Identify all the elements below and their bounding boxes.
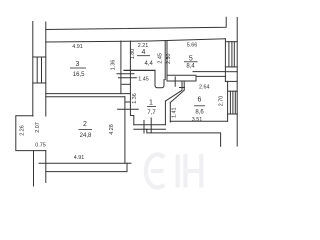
wire: left inner wall lower	[45, 151, 47, 183]
svg-text:4: 4	[142, 49, 146, 56]
svg-text:2.50: 2.50	[166, 53, 172, 64]
wire: rooms top wall	[46, 39, 226, 42]
room 2 bottom wall upper	[39, 162, 131, 164]
niche cap	[125, 101, 130, 103]
room 5 bottom wall lower line	[167, 80, 196, 82]
room 2 right wall	[124, 97, 126, 163]
svg-text:6: 6	[198, 97, 202, 104]
room 5 underline	[184, 61, 198, 63]
door tick a	[117, 73, 134, 75]
svg-text:2.45: 2.45	[157, 53, 163, 64]
window W2 caps	[225, 66, 237, 68]
corridor bottom line	[147, 129, 221, 146]
room 3 bottom wall lower line	[46, 96, 125, 98]
svg-text:2: 2	[83, 121, 87, 128]
svg-text:2.07: 2.07	[35, 122, 41, 133]
wire: left outer wall upper	[32, 22, 34, 117]
diagonal wall a	[165, 90, 182, 101]
rung y81.4	[225, 80, 237, 82]
jamb e1	[143, 121, 145, 134]
room 3 right wall	[120, 41, 122, 94]
right outer wall	[236, 18, 238, 147]
svg-text:7,7: 7,7	[147, 110, 156, 116]
svg-text:4,4: 4,4	[145, 61, 154, 67]
room 2 bottom wall lower	[46, 163, 127, 171]
window W1 left	[33, 56, 46, 58]
room 1 right wall b	[169, 103, 171, 123]
svg-text:8,4: 8,4	[186, 64, 195, 70]
wall room4/5 line1	[164, 41, 166, 80]
svg-text:16,5: 16,5	[73, 72, 85, 78]
room 3 underline	[70, 67, 86, 69]
svg-text:1.45: 1.45	[138, 77, 149, 83]
svg-text:0.75: 0.75	[35, 143, 46, 149]
room 4 underline	[137, 55, 150, 57]
svg-text:1.80: 1.80	[130, 49, 136, 60]
rung y71.7	[225, 71, 237, 73]
svg-text:4.91: 4.91	[72, 44, 83, 50]
svg-text:1: 1	[149, 100, 153, 107]
door jamb	[174, 77, 176, 86]
svg-text:3.51: 3.51	[192, 117, 203, 123]
wall room4/5 line2	[166, 41, 168, 81]
bay outline	[16, 116, 46, 151]
room 6 underline	[194, 105, 205, 107]
svg-text:3: 3	[76, 61, 80, 68]
svg-text:2.70: 2.70	[218, 96, 224, 107]
room 6 bottom wall	[170, 120, 227, 122]
diagonal wall b	[170, 90, 184, 102]
door tick room2	[118, 108, 139, 110]
room 1 underline	[147, 105, 156, 107]
wire: left inner wall upper	[45, 22, 47, 116]
room 5 right wall	[224, 39, 226, 82]
jamb e2	[150, 118, 152, 133]
svg-text:5: 5	[189, 55, 193, 62]
room 6 right wall	[227, 81, 229, 121]
svg-text:1.41: 1.41	[171, 108, 177, 119]
svg-text:2.21: 2.21	[138, 43, 149, 49]
room 1 bottom wall lower	[134, 128, 166, 130]
right strip rung y41.7	[226, 41, 237, 43]
svg-text:1.36: 1.36	[132, 93, 138, 104]
svg-text:24,8: 24,8	[80, 133, 92, 139]
svg-text:5.66: 5.66	[187, 42, 198, 48]
svg-text:2.26: 2.26	[19, 125, 25, 136]
window W3 hatch	[229, 91, 231, 114]
svg-text:2.64: 2.64	[199, 85, 210, 91]
watermark	[146, 154, 201, 188]
door tick room6	[180, 87, 185, 89]
svg-text:4.91: 4.91	[74, 155, 85, 161]
room 4 bottom wall	[124, 69, 155, 71]
room 1 bottom wall upper	[134, 124, 166, 126]
room 3 bottom wall upper line	[46, 93, 131, 95]
room 6 left wall verticals	[181, 81, 183, 90]
svg-text:4.28: 4.28	[109, 124, 115, 135]
room 1 right wall a	[164, 101, 166, 125]
door niche U	[155, 70, 164, 87]
room 5 bottom wall upper-left seg	[167, 74, 196, 76]
window W3 caps	[228, 90, 238, 92]
window W2 hatch	[228, 42, 230, 67]
svg-text:1.36: 1.36	[111, 60, 117, 71]
wire: top outer line	[46, 17, 226, 29]
door tick c	[122, 83, 131, 85]
svg-text:8,6: 8,6	[195, 110, 204, 116]
room 2 underline	[79, 129, 93, 131]
room 4 left wall / corridor wall	[130, 41, 133, 125]
door tick b	[119, 77, 137, 79]
wire: left outer wall lower	[33, 151, 35, 186]
